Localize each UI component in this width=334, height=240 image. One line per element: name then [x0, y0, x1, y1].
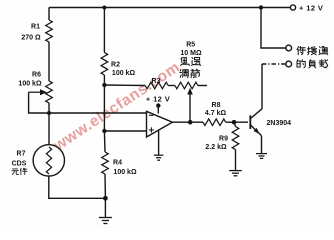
wire junction down to R7 [48, 113, 50, 145]
node base junction [232, 120, 237, 125]
node bottom ground junction [103, 196, 108, 201]
ground (op-amp) [154, 155, 164, 160]
wire R6 wiper return [29, 92, 49, 113]
wire emitter to ground [261, 136, 263, 154]
wire ground stub [104, 198, 106, 217]
node R2/R3 junction [102, 83, 106, 87]
node R6/R7/inverting-input junction [47, 111, 51, 115]
wire R3 to R5 [168, 85, 175, 87]
node rail/R2 junction [102, 6, 106, 10]
label R7 yuanjian [12, 169, 19, 175]
op-amp U1 [147, 111, 173, 137]
ground (bottom) [99, 218, 112, 224]
label load line2 [297, 60, 305, 68]
terminal +12V top [290, 5, 295, 10]
terminal load 1 [286, 45, 292, 51]
wire R4 to ground node [104, 174, 106, 198]
label load line1 [297, 47, 306, 55]
svg-text:R8: R8 [212, 102, 221, 109]
wire op-amp output [172, 121, 203, 123]
ground (emitter) [256, 154, 267, 159]
resistor R9 [232, 127, 239, 150]
svg-text:4.7 kΩ: 4.7 kΩ [205, 110, 227, 117]
svg-text:100 kΩ: 100 kΩ [113, 169, 137, 176]
R6 wiper arrow [29, 91, 43, 93]
svg-text:R1: R1 [31, 24, 40, 31]
svg-text:R5: R5 [186, 42, 195, 49]
svg-text:R6: R6 [32, 72, 41, 79]
wire R6 bottom to junction [48, 103, 50, 113]
wire R2/R3 node down to non-inverting node [103, 85, 105, 131]
potentiometer R6 [46, 81, 53, 103]
wire op-amp V- to ground [158, 130, 160, 155]
wire rail to R2 [103, 8, 105, 53]
wire dashed load link [262, 63, 286, 65]
svg-text:R4: R4 [113, 160, 122, 167]
svg-text:2.2 kΩ: 2.2 kΩ [205, 144, 227, 151]
node divider to non-inverting input [102, 129, 106, 133]
wire top +12V rail [49, 7, 291, 9]
wire node down to R4 [103, 131, 106, 152]
resistor R1 [46, 20, 53, 42]
photocell R7 element [46, 147, 51, 174]
wire V+ stub [157, 106, 159, 114]
ground (R9) [229, 171, 242, 176]
svg-text:270 Ω: 270 Ω [21, 35, 41, 42]
photocell R7 circle [33, 145, 64, 176]
svg-text:2N3904: 2N3904 [267, 120, 292, 127]
op-amp V+ pin dot [156, 103, 160, 107]
svg-text:10 MΩ: 10 MΩ [180, 50, 202, 57]
wire base node to R9 [234, 122, 236, 126]
terminal load 2 [286, 61, 292, 67]
svg-text:R3: R3 [152, 78, 161, 85]
wire rail junction down to terminal 1 [261, 8, 286, 49]
potentiometer R5 [175, 82, 198, 89]
watermark www.elecfans.com [50, 59, 183, 155]
node output junction [188, 120, 193, 125]
svg-text:+ 12 V: + 12 V [146, 95, 170, 104]
svg-text:100 kΩ: 100 kΩ [18, 81, 42, 88]
resistor R8 [203, 119, 226, 126]
wire collector [261, 64, 263, 109]
svg-text:R2: R2 [111, 62, 120, 69]
op-amp plus sign [149, 127, 154, 132]
node rail to output terminal junction [259, 5, 263, 9]
wire R8 to base node [226, 121, 248, 123]
op-amp minus sign [149, 114, 154, 116]
wire R7 bottom to ground rail [49, 176, 106, 198]
label R5 delay [181, 57, 190, 65]
svg-text:CDS: CDS [12, 161, 27, 168]
R5 wiper arrow [189, 93, 191, 122]
wire R5 right stub [198, 85, 207, 87]
wire node to op-amp non-inverting input [104, 130, 146, 132]
svg-text:+ 12 V: + 12 V [299, 4, 323, 13]
svg-text:100 kΩ: 100 kΩ [112, 70, 136, 77]
svg-text:R7: R7 [17, 151, 26, 158]
wire R2 to R3 node [103, 75, 105, 85]
label R5 adjust [180, 70, 189, 78]
wire junction to op-amp inverting input [49, 112, 147, 114]
resistor R3 [145, 82, 168, 89]
transistor Q1 2N3904 [250, 109, 262, 136]
resistor R4 [102, 152, 109, 174]
wire R2/R3 node to R3 [104, 84, 145, 87]
wire R1 to R6 [48, 42, 50, 81]
svg-text:R9: R9 [219, 136, 228, 143]
wire left column top (rail to R1) [48, 8, 50, 21]
transistor emitter arrow [254, 128, 260, 134]
resistor R2 [101, 53, 108, 76]
wire R9 to ground [235, 150, 237, 171]
